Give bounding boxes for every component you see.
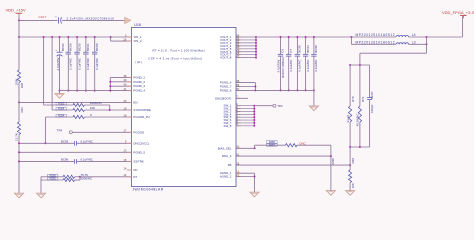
- svg-text:PGND_4: PGND_4: [133, 89, 145, 93]
- wire C13 to arrow: [62, 19, 125, 21]
- resistor R295 75.7K: [41, 176, 63, 178]
- capacitor C7: [288, 37, 290, 54]
- wire right cap bottom rail: [255, 89, 314, 91]
- svg-text:0.1uF/NC: 0.1uF/NC: [289, 60, 293, 72]
- svg-text:C7: C7: [289, 49, 293, 53]
- pin stub DNC(BOOT): [236, 97, 248, 99]
- wire RT join: [40, 177, 42, 193]
- svg-text:U18: U18: [134, 23, 141, 27]
- pin stubs left side: [127, 37, 132, 177]
- capacitor BC95: [296, 37, 298, 54]
- svg-text:L4: L4: [412, 33, 416, 37]
- svg-text:BC89: BC89: [95, 43, 99, 51]
- wire left cap bank bottom rail: [60, 90, 111, 92]
- svg-text:JWZM10648LAR: JWZM10648LAR: [132, 187, 163, 191]
- node EN junction: [18, 101, 20, 103]
- ground DNC column: [326, 191, 335, 196]
- wire PGND_6 pin wire: [236, 82, 255, 84]
- wire PGND bus vertical: [109, 77, 111, 90]
- node VDD/VIN junction: [18, 36, 20, 38]
- svg-text:BC88: BC88: [69, 43, 73, 51]
- chip right pin labels: [215, 33, 240, 178]
- node SW bus junctions: [253, 105, 255, 127]
- wire VDD riser: [18, 16, 20, 37]
- wire TP4 to PGOOD: [72, 131, 131, 133]
- svg-text:40: 40: [123, 83, 126, 87]
- wire SW bus: [253, 106, 255, 126]
- svg-text:L3: L3: [412, 41, 416, 45]
- svg-text:17: 17: [123, 129, 126, 133]
- wire PGND right bus: [254, 83, 256, 91]
- test point TP2: [273, 104, 276, 107]
- svg-text:C6: C6: [281, 49, 285, 53]
- wire C13 row: [19, 19, 58, 21]
- wire divider bottom rail: [350, 146, 370, 148]
- svg-text:CSF = 4.3 ns (Fout = Iout/(kOh: CSF = 4.3 ns (Fout = Iout/(kOhm): [148, 57, 202, 61]
- ferrite bead L3 MPZ2012S101A0S12: [350, 37, 352, 44]
- svg-text:0.1uF/NC: 0.1uF/NC: [69, 58, 73, 70]
- svg-text:BC94: BC94: [306, 45, 310, 53]
- node DNC_3 join: [330, 155, 332, 157]
- svg-text:DNC(BOOT): DNC(BOOT): [215, 96, 231, 100]
- svg-text:DNC(2VCC): DNC(2VCC): [133, 141, 149, 145]
- ferrite bead L4 MPZ2012S101A0S12: [351, 36, 396, 38]
- chip left pin labels: [123, 33, 151, 178]
- svg-text:0.1uF/NC: 0.1uF/NC: [95, 58, 99, 70]
- svg-text:BC93: BC93: [61, 139, 69, 143]
- wire divider top rail: [350, 64, 370, 66]
- svg-text:100pF: 100pF: [370, 104, 374, 113]
- resistor R292 1000/NC: [41, 179, 63, 181]
- svg-text:26: 26: [123, 38, 126, 42]
- node VDD/C13 junction: [18, 19, 20, 21]
- svg-text:RT: RT: [133, 175, 137, 179]
- wire PGND_5 row: [19, 151, 131, 153]
- wire AGND rows: [236, 172, 255, 174]
- svg-text:PGOOD_PU: PGOOD_PU: [133, 115, 149, 119]
- wire BIAS_SEL row: [236, 147, 255, 149]
- wire R304 pullup column: [51, 37, 53, 110]
- wire PGND_4 pin wire: [110, 90, 131, 92]
- wire VIN_2 branch: [110, 37, 112, 41]
- wire VIN rail: [19, 36, 131, 38]
- svg-text:VIN_2: VIN_2: [133, 39, 141, 43]
- svg-text:PGND_3: PGND_3: [133, 84, 145, 88]
- svg-text:R303: R303: [58, 101, 65, 105]
- svg-text:12: 12: [123, 173, 126, 177]
- svg-text:SW_8: SW_8: [224, 124, 232, 128]
- svg-text:PGND_2: PGND_2: [133, 80, 145, 84]
- capacitor BC96 0.1uF/NC: [19, 160, 74, 162]
- svg-text:38: 38: [123, 74, 126, 78]
- ground right cap bank: [309, 106, 318, 111]
- svg-text:100K/NC: 100K/NC: [90, 101, 102, 105]
- capacitor BC93 0.1uF/NC: [19, 142, 74, 144]
- svg-text:BC84: BC84: [61, 43, 65, 51]
- svg-text:R287: R287: [269, 143, 276, 147]
- svg-text:NC: NC: [133, 168, 137, 172]
- svg-text:13.7K: 13.7K: [15, 133, 19, 141]
- svg-text:BC95: BC95: [298, 45, 302, 53]
- ground RT: [37, 193, 46, 198]
- svg-text:13: 13: [123, 149, 126, 153]
- svg-text:0.1uF/NC: 0.1uF/NC: [86, 58, 90, 70]
- svg-text:MX20VC7086U10: MX20VC7086U10: [281, 57, 285, 78]
- capacitor BC89: [94, 37, 96, 52]
- resistor R294 0: [45, 116, 73, 118]
- svg-text:10K: 10K: [90, 106, 95, 110]
- svg-text:15: 15: [123, 158, 126, 162]
- resistor R304 10K: [52, 109, 73, 111]
- svg-text:BC98: BC98: [314, 45, 318, 53]
- capacitor C13: [57, 17, 59, 23]
- svg-text:20: 20: [123, 99, 126, 103]
- svg-text:0.1uF/NC: 0.1uF/NC: [306, 60, 310, 72]
- svg-text:DNC: DNC: [300, 141, 306, 145]
- svg-text:EN: EN: [133, 100, 137, 104]
- wire right bank ground drop: [313, 90, 315, 105]
- resistor R303 100K/NC: [44, 104, 73, 106]
- ground left cap bank: [55, 94, 64, 99]
- svg-text:41: 41: [123, 87, 126, 91]
- svg-text:0.1uF/NC: 0.1uF/NC: [81, 139, 93, 143]
- svg-text:2.2uF/25V_MX20VC7086U10: 2.2uF/25V_MX20VC7086U10: [67, 16, 115, 20]
- svg-text:R93: R93: [20, 107, 24, 113]
- svg-text:R294: R294: [58, 113, 65, 117]
- node R303/R304 join: [109, 109, 111, 111]
- svg-text:0.1uF/NC: 0.1uF/NC: [81, 158, 93, 162]
- svg-text:R70: R70: [351, 96, 355, 102]
- svg-text:18: 18: [123, 113, 126, 117]
- node L4 tap: [350, 36, 352, 38]
- svg-text:R304: R304: [58, 106, 65, 110]
- wire DNC ground column: [330, 145, 332, 190]
- wire VOUT bus: [255, 37, 257, 58]
- capacitor BC97 100pF: [369, 65, 371, 97]
- capacitor BC88: [67, 37, 69, 52]
- ground AGND: [250, 192, 259, 197]
- svg-text:VOUT_8: VOUT_8: [220, 56, 232, 60]
- wire SW pin wires: [236, 106, 254, 126]
- wire ground drop left bank: [59, 91, 61, 94]
- svg-text:AGND_2: AGND_2: [220, 175, 232, 179]
- svg-text:VDD_FPGA_+3.3V: VDD_FPGA_+3.3V: [442, 10, 474, 15]
- svg-text:R292: R292: [50, 176, 57, 180]
- svg-text:33.2K: 33.2K: [346, 115, 350, 123]
- svg-text:FB: FB: [228, 163, 232, 167]
- svg-text:R68: R68: [351, 158, 355, 164]
- wire R294 ground column: [44, 117, 46, 143]
- capacitor BC84: [59, 37, 61, 52]
- svg-text:BC91: BC91: [86, 43, 90, 51]
- svg-text:PGOOD: PGOOD: [133, 130, 144, 134]
- svg-text:0.1uF/NC: 0.1uF/NC: [298, 60, 302, 72]
- svg-text:SS/TRK: SS/TRK: [133, 159, 144, 163]
- wire R303 pullup column: [43, 37, 45, 105]
- svg-text:0.1uF/NC: 0.1uF/NC: [77, 58, 81, 70]
- wire EN row: [19, 101, 131, 103]
- svg-text:BC90: BC90: [77, 43, 81, 51]
- svg-text:MPZ2012S101A0S12: MPZ2012S101A0S12: [356, 33, 396, 37]
- svg-text:PGND_1: PGND_1: [133, 75, 145, 79]
- svg-text:BC96: BC96: [61, 158, 69, 162]
- wire VOUT rail: [256, 36, 351, 38]
- resistor R96 150K (EN pullup): [18, 37, 20, 70]
- wire sense drop: [426, 37, 428, 53]
- pin stubs right side: [236, 37, 241, 177]
- svg-text:BIAS_SEL: BIAS_SEL: [218, 146, 232, 150]
- svg-text:4.7uF/50V: 4.7uF/50V: [277, 59, 281, 72]
- wire PGND_7 pin wire: [236, 86, 255, 88]
- wire PGND_2 pin wire: [110, 81, 131, 83]
- svg-text:14: 14: [123, 166, 126, 170]
- svg-text:40.2K/NC: 40.2K/NC: [356, 113, 360, 127]
- svg-text:4.7uF/35V: 4.7uF/35V: [56, 57, 60, 70]
- svg-text:TP2: TP2: [277, 104, 283, 108]
- svg-text:DNC_3: DNC_3: [222, 154, 232, 158]
- capacitor BC94: [305, 37, 307, 54]
- svg-text:39: 39: [123, 78, 126, 82]
- svg-text:TP4: TP4: [57, 128, 63, 132]
- svg-text:( pF ): ( pF ): [135, 60, 142, 64]
- svg-text:MPZ2012S101A0S12: MPZ2012S101A0S12: [356, 41, 396, 45]
- ground EN divider: [15, 193, 24, 198]
- resistor R70 33.2K: [349, 65, 351, 106]
- svg-text:R96: R96: [20, 82, 24, 88]
- svg-text:150K: 150K: [15, 78, 19, 85]
- node L4/L3 right tie: [426, 36, 428, 38]
- wire VOUT pin wires: [236, 37, 256, 58]
- svg-text:BC97: BC97: [370, 91, 374, 99]
- svg-text:R298: R298: [331, 158, 335, 165]
- svg-text:10K: 10K: [351, 183, 355, 188]
- op-amp U18 regulator body: [131, 28, 236, 187]
- svg-text:19: 19: [123, 106, 126, 110]
- svg-text:PGND_8: PGND_8: [220, 88, 232, 92]
- svg-text:PGND_5: PGND_5: [133, 150, 145, 154]
- wire DNC_3 row: [236, 155, 331, 157]
- resistor R93 13.7K (EN pulldown): [18, 102, 20, 122]
- capacitor BC90: [76, 37, 78, 52]
- svg-text:RT = 11 K : Fout = 1.100 KHz(M: RT = 11 K : Fout = 1.100 KHz(Max): [153, 49, 205, 53]
- wire PGND_1 pin wire: [110, 76, 131, 78]
- svg-text:1000/NC: 1000/NC: [81, 177, 92, 181]
- svg-text:VDD_+15V: VDD_+15V: [6, 7, 26, 12]
- wire FB row: [236, 164, 350, 166]
- capacitor BC98: [313, 37, 315, 54]
- resistor R286 499: [286, 144, 298, 147]
- svg-text:C13 ?: C13 ?: [39, 15, 47, 19]
- node VIN_2 branch: [110, 36, 112, 38]
- svg-text:R71: R71: [361, 96, 365, 102]
- resistor R68 10K (FB lower): [349, 147, 351, 170]
- power flag VDD_FPGA_+3.3V: [462, 16, 464, 37]
- capacitor C6: [280, 37, 282, 54]
- ground FB divider: [346, 191, 355, 196]
- off-page arrow VIN: [125, 17, 132, 24]
- wire PGND_3 pin wire: [110, 85, 131, 87]
- svg-text:0.1uF/NC: 0.1uF/NC: [314, 60, 318, 72]
- node VOUT bus junctions: [255, 36, 257, 59]
- wire SW to TP2: [254, 105, 273, 107]
- capacitor BC91: [85, 37, 87, 52]
- resistor R71 40.2K/NC: [359, 65, 361, 106]
- wire PGND_8 pin wire: [236, 89, 255, 91]
- svg-text:SYNC/MODE: SYNC/MODE: [133, 108, 151, 112]
